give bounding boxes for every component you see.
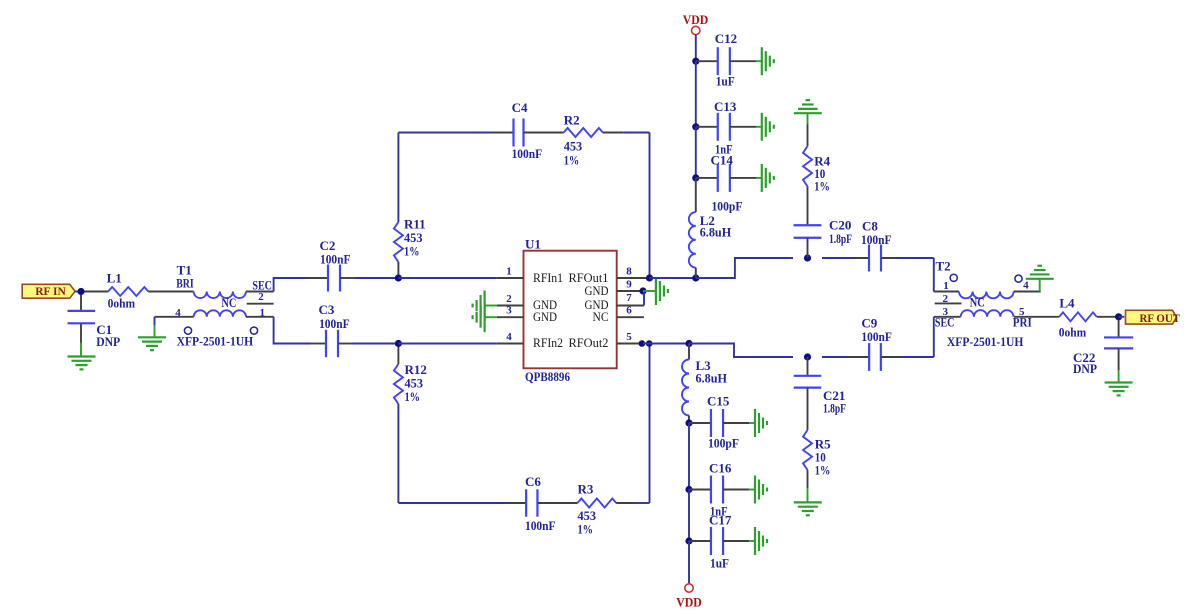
node pin5 junction b <box>646 340 653 347</box>
svg-text:100pF: 100pF <box>708 436 739 451</box>
capacitor C20 1.8pF <box>794 224 822 226</box>
wire step up to C20 row <box>696 258 793 278</box>
wire top loop right vertical <box>649 133 651 279</box>
ground R5 <box>794 501 822 503</box>
wire <box>538 502 578 504</box>
resistor R12 453 1% <box>397 347 399 365</box>
wire <box>398 343 496 345</box>
svg-text:RFIn1: RFIn1 <box>533 271 563 285</box>
resistor R2 453 1% <box>564 128 603 137</box>
svg-text:1uF: 1uF <box>716 74 735 89</box>
resistor R3 453 1% <box>578 499 617 508</box>
svg-text:C20: C20 <box>829 217 851 232</box>
capacitor C15 <box>689 422 711 424</box>
wire <box>246 291 274 293</box>
wire <box>695 178 697 212</box>
svg-text:VDD: VDD <box>676 595 702 610</box>
capacitor C14 <box>696 177 718 179</box>
svg-text:453: 453 <box>564 138 583 153</box>
wire <box>688 423 690 490</box>
capacitor C12 <box>696 60 718 62</box>
node C12 junction <box>692 58 699 65</box>
capacitor C2 100nF <box>305 277 328 279</box>
wire to ground <box>154 317 156 325</box>
capacitor C9 100nF <box>868 343 870 371</box>
node C16 junction <box>685 486 692 493</box>
U1 pin 5 stub <box>617 343 643 345</box>
node C20 junction <box>804 254 811 261</box>
wire <box>688 416 690 424</box>
node C15 junction <box>685 419 692 426</box>
svg-text:4: 4 <box>175 307 181 319</box>
svg-text:1%: 1% <box>405 389 421 404</box>
ground U1 pin 3 left <box>485 316 497 318</box>
svg-text:100nF: 100nF <box>320 251 351 266</box>
svg-text:R2: R2 <box>564 112 580 127</box>
svg-text:C16: C16 <box>709 461 732 476</box>
wire <box>650 277 696 279</box>
ground U1 pin 2 left <box>485 305 497 307</box>
wire <box>822 356 847 358</box>
svg-text:GND: GND <box>533 310 557 324</box>
U1 pin 8 stub <box>617 277 646 279</box>
node pin4 junction <box>395 340 402 347</box>
svg-text:RFIn2: RFIn2 <box>533 336 563 350</box>
U1 pin 3 stub <box>497 316 524 318</box>
capacitor C1 <box>80 295 82 311</box>
wire <box>695 127 697 178</box>
svg-text:C13: C13 <box>714 99 737 114</box>
ground C13 <box>761 113 763 141</box>
capacitor C4 100nF <box>512 119 514 147</box>
svg-text:L1: L1 <box>107 270 122 285</box>
U1 pin 6 stub <box>617 316 644 318</box>
port RF IN <box>22 284 75 298</box>
node C14 junction <box>692 174 699 181</box>
svg-text:1.8pF: 1.8pF <box>829 231 852 246</box>
svg-text:RFOut2: RFOut2 <box>569 336 609 350</box>
wire pin9 to ground <box>643 290 656 292</box>
inductor L4 0ohm <box>1059 312 1097 321</box>
wire <box>807 238 809 258</box>
polarity circle T2 pin1 <box>950 274 957 281</box>
U1 pin 2 stub <box>497 305 524 307</box>
node C17 junction <box>685 537 692 544</box>
svg-text:1: 1 <box>943 280 949 292</box>
svg-text:6.8uH: 6.8uH <box>696 371 728 386</box>
ground U1 pin 9 <box>655 277 657 305</box>
transformer T2 primary coil <box>934 291 959 293</box>
transformer T2 secondary coil <box>934 316 961 318</box>
ground C17 <box>754 527 756 555</box>
U1 pin 4 stub <box>497 343 524 345</box>
resistor R5 10 1% <box>803 430 812 470</box>
ground C14 <box>761 164 763 192</box>
svg-text:R3: R3 <box>578 482 594 497</box>
svg-text:1uF: 1uF <box>710 556 729 571</box>
polarity circle T2 pin4 <box>1015 275 1022 282</box>
inductor L1 0ohm <box>108 287 148 296</box>
ground C12 <box>761 47 763 75</box>
svg-text:NC: NC <box>593 310 609 324</box>
wire bottom loop right vertical <box>649 344 651 504</box>
svg-text:VDD: VDD <box>683 12 709 27</box>
svg-text:XFP-2501-1UH: XFP-2501-1UH <box>947 334 1024 349</box>
port RF OUT <box>1126 310 1177 324</box>
svg-text:6.8uH: 6.8uH <box>700 225 732 240</box>
wire <box>807 388 809 430</box>
svg-text:1: 1 <box>506 266 512 278</box>
wire <box>807 470 809 488</box>
wire <box>523 132 563 134</box>
node pin8 junction <box>646 274 653 281</box>
svg-text:0ohm: 0ohm <box>108 295 136 310</box>
node C21 junction <box>804 353 811 360</box>
wire <box>75 291 81 293</box>
pin 2 T1 no-connect stub <box>247 303 274 305</box>
svg-text:RF OUT: RF OUT <box>1140 311 1181 325</box>
svg-text:4: 4 <box>506 331 512 343</box>
wire <box>355 277 398 279</box>
svg-text:5: 5 <box>626 331 632 343</box>
wire <box>643 343 689 345</box>
wire SEC down to pin4 row <box>246 316 274 318</box>
wire <box>695 61 697 127</box>
wire top loop <box>398 132 492 134</box>
capacitor C16 <box>689 489 711 491</box>
node C13 junction <box>692 123 699 130</box>
svg-text:PRI: PRI <box>1013 315 1032 330</box>
svg-text:1%: 1% <box>814 179 830 194</box>
U1 pin 1 stub <box>497 277 524 279</box>
capacitor C3 100nF <box>310 343 326 345</box>
svg-text:GND: GND <box>585 284 609 298</box>
svg-text:100nF: 100nF <box>319 316 350 331</box>
node input junction <box>77 288 84 295</box>
svg-text:NC: NC <box>221 295 236 310</box>
wire step down to C9 row <box>689 344 793 358</box>
wire <box>1119 316 1125 318</box>
svg-text:RF IN: RF IN <box>35 286 66 298</box>
svg-text:XFP-2501-1UH: XFP-2501-1UH <box>177 334 254 349</box>
svg-text:C3: C3 <box>319 302 335 317</box>
wire bottom loop <box>398 502 505 504</box>
capacitor C13 <box>696 126 718 128</box>
svg-text:1%: 1% <box>564 153 580 168</box>
svg-text:C4: C4 <box>512 100 528 115</box>
svg-text:NC: NC <box>970 294 985 309</box>
svg-text:C15: C15 <box>707 394 730 409</box>
svg-text:C12: C12 <box>715 31 737 46</box>
svg-text:C17: C17 <box>709 513 732 528</box>
ground C1 <box>68 355 96 357</box>
resistor R4 10 1% <box>803 146 812 186</box>
svg-text:2: 2 <box>506 293 512 305</box>
svg-text:100nF: 100nF <box>861 329 892 344</box>
svg-text:1.8pF: 1.8pF <box>823 401 846 416</box>
wire <box>881 257 898 259</box>
wire <box>398 277 496 279</box>
svg-text:2: 2 <box>258 291 264 303</box>
svg-text:QPB8896: QPB8896 <box>525 369 570 384</box>
inductor L2 6.8uH <box>689 212 696 268</box>
svg-text:7: 7 <box>626 292 632 304</box>
wire <box>155 316 194 318</box>
transformer T1 secondary coil <box>194 310 246 317</box>
svg-text:3: 3 <box>506 305 512 317</box>
U1 pin 9 stub <box>617 290 640 292</box>
wire <box>807 113 809 124</box>
svg-text:2: 2 <box>942 293 948 305</box>
pin 2 T2 no-connect stub <box>935 302 962 304</box>
svg-text:6: 6 <box>626 305 632 317</box>
node output junction <box>1115 313 1122 320</box>
capacitor C8 100nF <box>868 245 870 272</box>
wire pin7 to pin9 <box>643 291 645 306</box>
polarity circle T1 left <box>184 327 191 334</box>
wire <box>695 35 697 62</box>
svg-text:1%: 1% <box>815 463 831 478</box>
svg-text:T2: T2 <box>936 259 951 274</box>
wire <box>688 490 690 542</box>
wire T2 pin4 to ground <box>1039 279 1041 292</box>
wire <box>616 502 635 504</box>
wire <box>84 291 108 293</box>
node L3 junction <box>685 340 692 347</box>
wire <box>881 356 901 358</box>
node pin 9 junction <box>639 287 646 294</box>
wire <box>603 132 624 134</box>
svg-text:C6: C6 <box>525 474 541 489</box>
node pin5 junction a <box>639 340 646 347</box>
svg-text:SEC: SEC <box>935 315 955 330</box>
transformer T1 primary coil <box>194 292 246 299</box>
ground C22 <box>1105 381 1133 383</box>
wire <box>148 291 193 293</box>
svg-text:4: 4 <box>1023 280 1029 292</box>
svg-text:0ohm: 0ohm <box>1059 325 1087 340</box>
node L2 junction <box>692 274 699 281</box>
svg-text:1%: 1% <box>578 522 594 537</box>
capacitor C22 DNP <box>1118 320 1120 338</box>
ground C15 <box>754 409 756 437</box>
wire SEC up to pin1 row <box>274 278 305 292</box>
svg-text:L4: L4 <box>1059 295 1075 310</box>
capacitor C17 <box>689 540 711 542</box>
ground R4 top <box>794 112 822 114</box>
wire <box>1097 316 1119 318</box>
svg-text:8: 8 <box>626 266 632 278</box>
wire down to T2 pin1 <box>933 258 935 292</box>
polarity circle T1 right <box>250 327 257 334</box>
svg-text:100nF: 100nF <box>525 518 556 533</box>
svg-text:RFOut1: RFOut1 <box>569 271 609 285</box>
wire <box>695 268 697 278</box>
svg-text:100nF: 100nF <box>512 146 543 161</box>
ground T2 pin4 <box>1026 278 1054 280</box>
node pin1 junction <box>395 274 402 281</box>
svg-text:DNP: DNP <box>1073 361 1097 376</box>
ground C16 <box>754 476 756 504</box>
U1 pin 7 stub <box>617 305 644 307</box>
wire <box>688 344 690 360</box>
svg-text:BRI: BRI <box>176 276 194 291</box>
svg-text:C14: C14 <box>711 152 734 167</box>
power VDD bottom <box>685 584 693 592</box>
ground T1 pin4 <box>138 336 166 338</box>
wire <box>688 541 690 584</box>
wire <box>352 343 398 345</box>
svg-text:DNP: DNP <box>96 334 120 349</box>
capacitor C21 1.8pF <box>807 357 809 376</box>
wire <box>807 186 809 225</box>
svg-text:U1: U1 <box>525 237 541 252</box>
inductor L3 6.8uH <box>682 360 689 416</box>
svg-text:100pF: 100pF <box>712 199 743 214</box>
resistor R11 453 1% <box>397 262 399 275</box>
wire up to T2 pin3 <box>933 317 935 357</box>
capacitor C6 100nF <box>525 489 527 516</box>
svg-text:100nF: 100nF <box>861 232 892 247</box>
svg-text:1%: 1% <box>404 243 420 258</box>
op-amp U1 QPB8896 body <box>524 251 617 369</box>
wire <box>822 257 852 259</box>
svg-text:9: 9 <box>626 279 632 291</box>
